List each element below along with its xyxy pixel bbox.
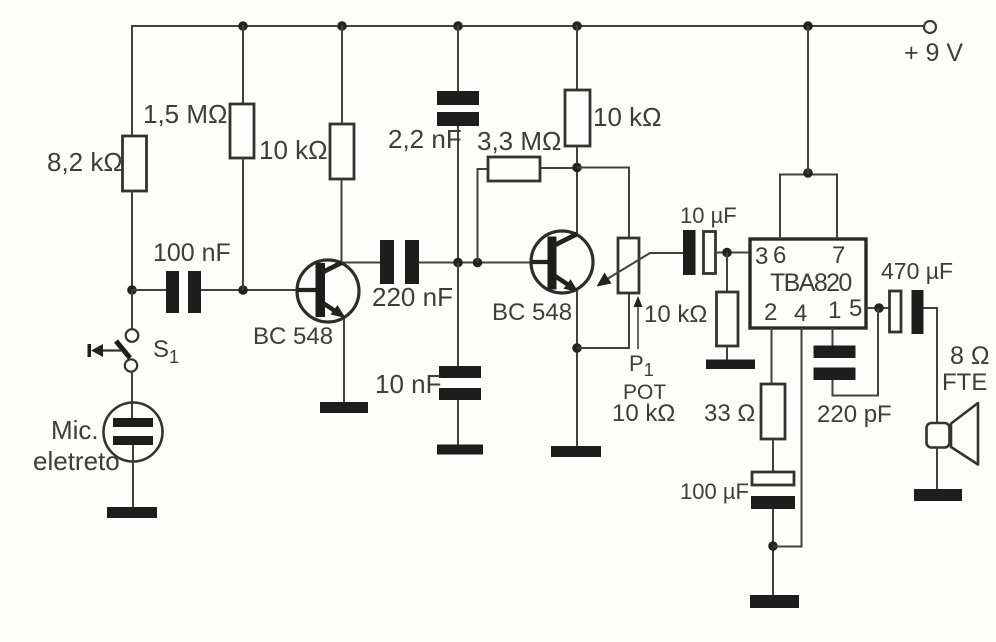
resistor R 1,5 MOhm [230,104,254,158]
node base2 dot A [453,258,463,268]
svg-text:BC 548: BC 548 [492,299,572,326]
node rail dot A [238,21,248,31]
svg-text:6: 6 [773,242,786,269]
node pin5 dot [874,303,884,313]
wire Q2 emitter down [576,291,578,446]
svg-text:1,5 MΩ: 1,5 MΩ [143,99,227,129]
wire 10k R3 top [341,25,343,125]
wire pin1 down [832,328,834,346]
transistor Q2 BC548 [531,231,593,293]
svg-text:S1: S1 [153,336,179,367]
svg-text:10 kΩ: 10 kΩ [259,135,328,165]
svg-text:2: 2 [764,299,777,326]
wire C8 bottom to ground [772,509,774,596]
resistor R 10 kOhm collector Q2 [565,90,590,146]
wire Q1 emitter down [343,319,345,403]
wire 8.2k top [131,25,133,137]
svg-text:220 nF: 220 nF [372,282,453,312]
wire pot wiper [603,253,683,282]
svg-text:10 µF: 10 µF [680,203,737,228]
microphone electret [104,403,163,462]
wire 10nF bottom [457,400,459,446]
wire 1.5M top [242,25,244,105]
ground Q1 emitter [320,402,368,413]
wire speaker to ground [936,448,938,491]
wire mic to ground [132,445,134,508]
svg-text:P1: P1 [629,351,654,380]
wire top supply rail [131,25,924,27]
capacitor C8 100uF polarized [751,472,795,509]
wire 8.2k bottom [131,191,133,290]
wire 2.2nF top [457,25,459,92]
wire 10k R3 bottom to collector node [342,179,381,263]
wire 10k R4 bottom [576,146,578,234]
node base1 left dot [127,285,137,295]
ground 10nF [437,445,483,455]
ground C8 [750,595,799,608]
ground R6 [706,360,755,370]
svg-text:3,3 MΩ: 3,3 MΩ [477,126,561,156]
svg-text:10 kΩ: 10 kΩ [644,301,707,328]
ground Q2 emitter [551,446,601,457]
wire R6 bottom [726,346,728,360]
resistor R 10 kOhm input [717,292,739,346]
resistor R 3,3 MOhm feedback [488,157,540,181]
svg-text:470 µF: 470 µF [881,258,953,284]
wire 220pF bottom loop to pin5 node [833,308,879,396]
label pointer arrow P1 [634,296,643,349]
svg-text:eletreto: eletreto [33,446,120,476]
node base2 dot B [473,258,483,268]
wire 3.3M right leg [540,167,577,169]
terminal +9V open circle [924,21,936,33]
svg-text:+ 9 V: + 9 V [904,39,963,67]
wire supply bracket pins 6 7 [780,175,837,240]
node base1 mid dot [238,285,248,295]
svg-text:8,2 kΩ: 8,2 kΩ [47,147,123,177]
svg-text:10 kΩ: 10 kΩ [612,400,675,427]
wire collector2 to pot top [577,168,629,240]
speaker FTE [927,403,979,465]
switch S1 [88,329,139,371]
wire down to 10nF [457,263,459,368]
capacitor C2 220nF [380,240,419,284]
wire 3.3M left leg [478,169,489,263]
wire emitter2 to pot bottom [577,293,629,348]
node rail dot D [572,21,582,31]
wire 1.5M bottom [242,158,244,290]
capacitor C1 100nF [166,271,201,313]
svg-text:33 Ω: 33 Ω [704,400,755,427]
svg-text:100 µF: 100 µF [680,479,749,504]
capacitor C7 470uF polarized [890,290,924,334]
ground mic [107,507,157,518]
svg-text:5: 5 [849,295,862,322]
node pin4 dot [768,541,778,551]
wire pin3 node down [726,253,728,294]
wire base1 to C1 [132,289,166,291]
svg-text:Mic.: Mic. [51,415,99,445]
wire pin2 down [771,328,773,385]
svg-text:3: 3 [755,243,768,270]
wire pin4 down and left [773,328,802,547]
svg-text:100 nF: 100 nF [153,239,231,267]
node pin3 dot [722,248,732,258]
svg-text:TBA820: TBA820 [770,269,851,297]
node collector2 dot [572,163,582,173]
wire C6 to pin3 [716,252,751,254]
resistor R 33 Ohm [761,384,785,439]
node supply dot [803,168,813,178]
node rail dot B [337,21,347,31]
svg-text:8 Ω: 8 Ω [950,342,990,370]
resistor R 8,2 kOhm [123,136,147,191]
svg-text:FTE: FTE [942,369,987,396]
wire C1 to Q1 base [201,289,316,291]
svg-text:4: 4 [794,300,807,327]
svg-text:BC 548: BC 548 [253,323,333,350]
svg-text:220 pF: 220 pF [817,401,892,428]
transistor Q1 BC548 [297,260,359,322]
ground speaker [914,489,962,501]
wire switch to mic [131,372,133,419]
potentiometer P1 10k [618,238,639,293]
node rail dot C [453,21,463,31]
wire 2.2nF bottom to base2 line [457,126,459,263]
svg-text:10 nF: 10 nF [375,369,442,399]
svg-text:1: 1 [828,297,841,324]
capacitor C4 10nF [439,366,481,400]
wire 33R to C8 [772,439,774,472]
pot wiper diagonal arrow [597,273,612,287]
capacitor C5 220pF [814,346,856,381]
svg-text:2,2 nF: 2,2 nF [388,124,462,154]
wire C7 to speaker [924,308,938,424]
svg-text:10 kΩ: 10 kΩ [593,102,662,132]
wire node to switch [131,290,133,330]
wire pin5 out [866,307,890,309]
node emitter2 dot [572,343,582,353]
wire supply drop [807,26,809,175]
capacitor C3 2,2nF [437,91,479,126]
svg-text:7: 7 [832,242,845,269]
capacitor C6 10uF polarized [683,230,716,275]
wire 10k R4 top [576,25,578,91]
IC U1 TBA820 box [750,239,866,328]
node rail dot E [803,21,813,31]
resistor R 10 kOhm collector Q1 [330,124,354,179]
wire C2 to Q2 base [419,262,548,264]
